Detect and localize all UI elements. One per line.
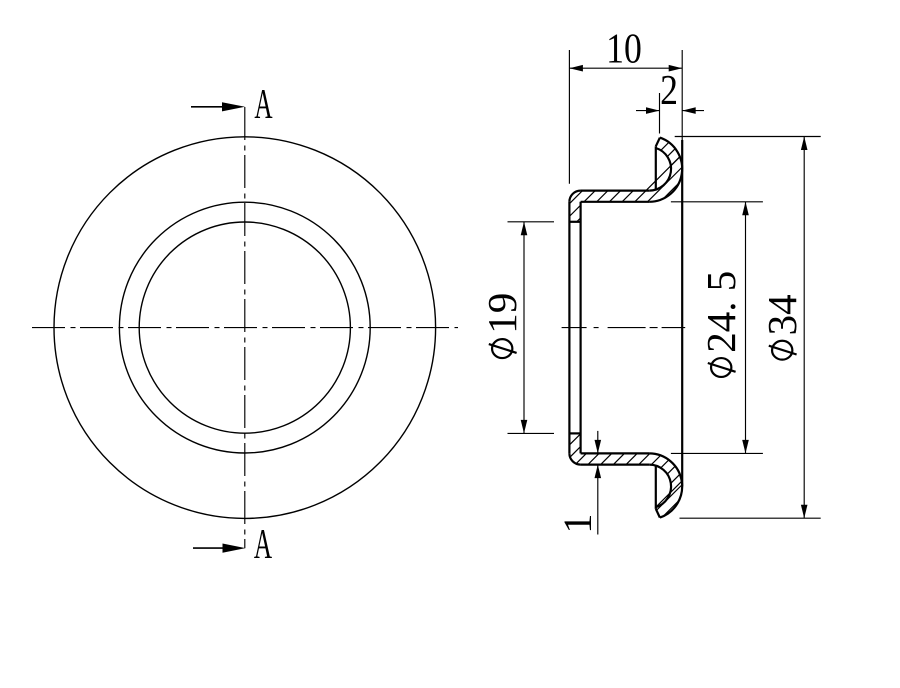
dim 10 extension line left: [568, 50, 570, 184]
dim phi19 extension top: [508, 221, 555, 223]
flange right face extension line upper: [681, 50, 683, 140]
lip tip face bottom: [569, 432, 580, 434]
dim phi24.5 extension bottom: [671, 452, 763, 454]
curl inner arc bottom: [649, 465, 671, 508]
hatch line across bottom curl eye: [655, 481, 682, 508]
svg-text:24. 5: 24. 5: [698, 271, 744, 353]
curl outer arc bottom: [649, 453, 682, 517]
sleeve wall top inner edge: [581, 201, 650, 203]
dim phi19 extension bottom: [508, 432, 555, 434]
curl inner arc top: [649, 148, 671, 191]
front view horizontal centerline: [32, 327, 458, 329]
svg-text:10: 10: [606, 26, 642, 72]
svg-text:19: 19: [479, 293, 525, 334]
front view vertical centerline (cutting plane A-A): [244, 107, 246, 548]
section arrow A top: [191, 106, 232, 108]
dim phi34 extension top: [675, 136, 821, 138]
dim 2 line left segment: [636, 110, 660, 112]
dim text phi24.5: [698, 271, 744, 377]
section arrow A bottom: [193, 547, 234, 549]
dim phi24.5 extension top: [671, 201, 763, 203]
curl tip face bottom: [656, 509, 660, 518]
bend arc bottom-left: [569, 453, 580, 464]
front view middle circle (sleeve bore 24.5): [119, 202, 370, 453]
dim 2 line right segment: [682, 110, 704, 112]
dim phi19 line: [523, 222, 525, 434]
section lip outer face line: [568, 202, 570, 454]
sleeve wall top outer edge: [581, 190, 650, 192]
lip tip face top: [569, 221, 580, 223]
section hatching 45deg: [233, 120, 900, 540]
flange right face line: [681, 140, 683, 486]
bend arc top-left: [569, 191, 580, 202]
dim 10 line: [569, 67, 682, 69]
dim 1 line upper: [597, 431, 599, 454]
hatch line across top curl eye: [646, 157, 680, 191]
dim text phi19: [479, 293, 525, 358]
svg-text:2: 2: [660, 67, 678, 113]
curl tip face top: [656, 138, 660, 147]
dim phi24.5 line: [745, 202, 747, 454]
section lip inner face / bore edge line: [579, 202, 581, 454]
curl tip edge line top: [655, 146, 657, 189]
svg-text:34: 34: [759, 294, 805, 335]
dim 2 extension line: [659, 93, 661, 134]
sleeve wall bottom outer edge: [581, 464, 650, 466]
svg-text:A: A: [254, 522, 272, 568]
front view inner circle (lip bore 19): [139, 222, 350, 433]
dim phi34 extension bottom: [680, 517, 821, 519]
sleeve wall bottom inner edge: [581, 452, 650, 454]
section horizontal centerline: [562, 327, 686, 329]
svg-text:1: 1: [555, 514, 600, 534]
svg-text:A: A: [254, 82, 272, 128]
dim phi34 line: [803, 137, 805, 519]
dim 1 line lower: [597, 465, 599, 535]
curl outer arc top: [649, 138, 682, 202]
dim text phi34: [759, 294, 805, 359]
curl tip edge line bottom: [655, 466, 657, 509]
front view outer circle (flange OD 34): [54, 137, 436, 519]
